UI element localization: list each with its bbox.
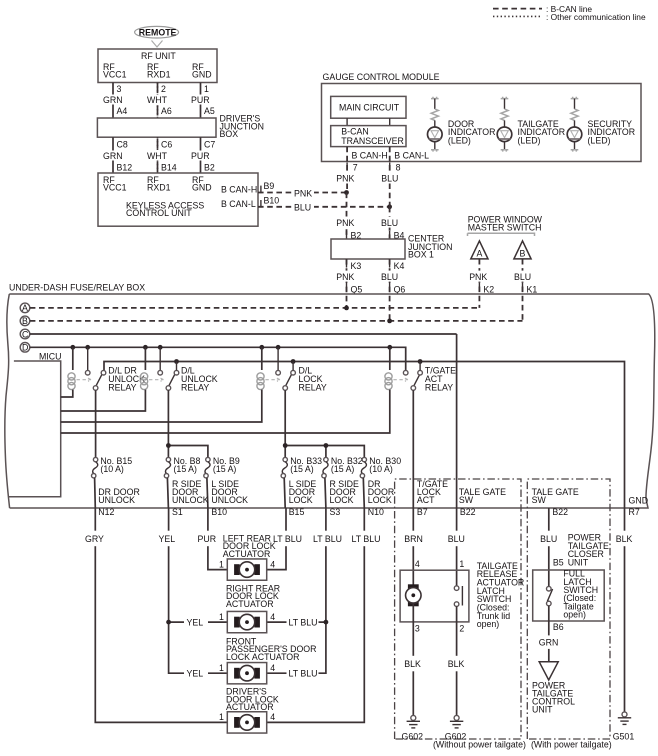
svg-text:B12: B12 xyxy=(117,163,133,173)
svg-text:RELAY: RELAY xyxy=(181,382,209,392)
svg-text:3: 3 xyxy=(117,84,122,94)
svg-text:BOX: BOX xyxy=(220,129,239,139)
legend other communication line xyxy=(493,12,646,22)
svg-text:REMOTE: REMOTE xyxy=(139,27,177,37)
svg-text:VCC1: VCC1 xyxy=(103,69,127,79)
junction node on BLU B-CAN xyxy=(387,204,392,209)
svg-text:B7: B7 xyxy=(417,507,428,517)
inline YEL label right rear actuator xyxy=(184,616,208,629)
power tailgate control unit label xyxy=(532,680,575,714)
relay K3 D/L lock relay xyxy=(61,347,327,422)
left rear door lock actuator M1 xyxy=(219,534,276,581)
svg-text:B10: B10 xyxy=(264,195,280,205)
svg-text:A5: A5 xyxy=(204,106,215,116)
svg-text:K4: K4 xyxy=(394,261,405,271)
svg-text:K1: K1 xyxy=(527,284,538,294)
wire BLU K1 from triangle B to line B xyxy=(512,259,537,321)
front passenger's door lock actuator M3 xyxy=(219,637,316,684)
caption DR DOOR LOCK xyxy=(368,479,394,505)
wire B-CAN L dashed BLU from keyless to node xyxy=(258,201,390,212)
wire BLU B22 to latch switch xyxy=(445,508,469,586)
svg-text:RXD1: RXD1 xyxy=(147,183,171,193)
caption L SIDE DOOR LOCK xyxy=(289,479,317,505)
junction node D at relay4 coil xyxy=(387,345,392,350)
inline LT BLU label front passenger actuator xyxy=(287,667,319,680)
wire main circuit to transceiver left xyxy=(346,118,348,125)
svg-text:PUR: PUR xyxy=(191,151,210,161)
svg-text:1: 1 xyxy=(219,663,224,673)
svg-text:B5: B5 xyxy=(553,558,564,568)
svg-text:BLU: BLU xyxy=(540,534,557,544)
relay K4 T/GATE act relay xyxy=(61,347,456,433)
svg-text:1: 1 xyxy=(219,559,224,569)
junction node fuse B32 feed xyxy=(324,443,329,448)
wire line A dashed to K2 xyxy=(30,307,480,309)
MICU box xyxy=(8,351,61,496)
svg-text:1: 1 xyxy=(219,712,224,722)
junction node D at relay3 coil xyxy=(259,345,264,350)
junction node D at relay2 contact xyxy=(158,345,163,350)
svg-text:S1: S1 xyxy=(172,507,183,517)
svg-text:D: D xyxy=(22,343,28,353)
svg-text:PNK: PNK xyxy=(294,188,312,198)
svg-text:B-CAN: B-CAN xyxy=(341,127,368,137)
svg-text:B14: B14 xyxy=(161,163,177,173)
svg-text:CONTROL UNIT: CONTROL UNIT xyxy=(126,208,192,218)
svg-text:(10 A): (10 A) xyxy=(369,464,393,474)
svg-text:4: 4 xyxy=(415,559,420,569)
svg-text:A4: A4 xyxy=(117,106,128,116)
svg-text:UNIT: UNIT xyxy=(532,705,553,715)
keyless access control unit box xyxy=(98,173,258,226)
wire LT BLU S3 column to actuators xyxy=(267,508,342,673)
wire LT BLU N10 column to driver's door lock actuator xyxy=(267,508,381,722)
node B xyxy=(20,316,30,326)
svg-text:4: 4 xyxy=(270,559,275,569)
junction node line A at Q5 xyxy=(344,306,349,311)
dashed box with power tailgate xyxy=(527,479,610,739)
tailgate indicator LED D2 xyxy=(497,97,565,152)
svg-text:PUR: PUR xyxy=(191,95,210,105)
ground G501 xyxy=(613,712,635,742)
svg-text:B CAN-H: B CAN-H xyxy=(221,185,257,195)
pin B9 keyless B CAN-H xyxy=(261,181,274,193)
wire YEL S1 column to actuators xyxy=(157,508,228,673)
svg-text:B CAN-L: B CAN-L xyxy=(221,199,256,209)
svg-text:YEL: YEL xyxy=(187,668,204,678)
svg-text:BOX 1: BOX 1 xyxy=(408,249,434,259)
wire BLK pin 2 to ground G602 xyxy=(446,606,469,716)
svg-text:YEL: YEL xyxy=(159,534,176,544)
center junction box 1 xyxy=(331,234,452,260)
node D xyxy=(20,343,30,353)
svg-text:C8: C8 xyxy=(117,140,128,150)
dashed box without power tailgate xyxy=(395,479,521,739)
svg-text:LT BLU: LT BLU xyxy=(289,668,318,678)
svg-text:BLK: BLK xyxy=(404,659,421,669)
svg-text:RXD1: RXD1 xyxy=(147,69,171,79)
svg-text:1: 1 xyxy=(204,84,209,94)
svg-text:: Other communication line: : Other communication line xyxy=(546,12,646,22)
svg-text:open): open) xyxy=(477,619,500,629)
wire PNK K2 from triangle A to line A xyxy=(468,259,494,308)
pin B10 keyless B CAN-L xyxy=(261,195,279,207)
svg-text:BLU: BLU xyxy=(294,203,311,213)
svg-text:K3: K3 xyxy=(351,261,362,271)
svg-text:PNK: PNK xyxy=(336,218,354,228)
svg-text:(15 A): (15 A) xyxy=(174,464,198,474)
tailgate switch column from line C xyxy=(456,334,458,508)
wire BLU B22 to full latch switch B5 xyxy=(537,508,563,586)
main circuit block xyxy=(331,96,406,118)
svg-text:GAUGE CONTROL MODULE: GAUGE CONTROL MODULE xyxy=(323,72,440,82)
power tailgate closer unit label xyxy=(568,533,609,568)
svg-text:BLU: BLU xyxy=(514,272,531,282)
wire WHT RF RXD1 pin 2 to A6 (dotted comm line) xyxy=(146,83,172,119)
caption TALE GATE SW without power tailgate xyxy=(459,487,506,505)
svg-text:MASTER SWITCH: MASTER SWITCH xyxy=(468,223,542,233)
ground G602 tailgate actuator xyxy=(402,715,424,741)
svg-text:C6: C6 xyxy=(161,140,172,150)
svg-text:2: 2 xyxy=(459,624,464,634)
fuse No.B32 15A xyxy=(322,456,363,508)
wire LT BLU B15 column from left rear actuator xyxy=(267,508,302,570)
gauge control module box xyxy=(322,72,642,162)
remote transmitter bubble xyxy=(135,26,179,38)
caption L SIDE DOOR UNLOCK xyxy=(211,479,248,505)
svg-text:(LED): (LED) xyxy=(448,136,471,146)
svg-text:PNK: PNK xyxy=(336,174,354,184)
junction node D at relay2 coil xyxy=(143,345,148,350)
under-dash fuse/relay box outline xyxy=(5,283,655,508)
svg-text:N12: N12 xyxy=(98,507,114,517)
svg-text:Q5: Q5 xyxy=(351,284,363,294)
right rear door lock actuator M2 xyxy=(219,583,280,632)
svg-text:N10: N10 xyxy=(368,507,384,517)
tailgate release actuator and latch switch box xyxy=(400,561,524,629)
svg-text:C: C xyxy=(22,329,29,339)
svg-text:BLU: BLU xyxy=(381,272,398,282)
svg-text:A: A xyxy=(477,248,483,258)
svg-text:B CAN-H: B CAN-H xyxy=(352,151,388,161)
junction node lever bus at relay3 xyxy=(291,359,296,364)
svg-text:LT BLU: LT BLU xyxy=(273,534,302,544)
svg-text:3: 3 xyxy=(415,624,420,634)
svg-text:2: 2 xyxy=(161,84,166,94)
svg-text:LT BLU: LT BLU xyxy=(352,534,381,544)
relay lever bus line to GND column xyxy=(104,362,625,509)
svg-text:UNLOCK: UNLOCK xyxy=(98,495,135,505)
wire line C solid to tailgate switch column xyxy=(30,333,457,335)
svg-text:B9: B9 xyxy=(264,181,275,191)
wire B CAN-L gauge pin 8 BLU dashed xyxy=(379,147,429,207)
svg-text:1: 1 xyxy=(459,559,464,569)
svg-text:C7: C7 xyxy=(204,140,215,150)
junction node lever bus at relay4 xyxy=(418,359,423,364)
svg-text:UNLOCK: UNLOCK xyxy=(211,495,248,505)
svg-text:S3: S3 xyxy=(330,507,341,517)
connector triangle B power window master switch xyxy=(514,241,531,259)
svg-text:(LED): (LED) xyxy=(518,136,541,146)
wire GRN B6 to power tailgate control unit xyxy=(537,606,564,662)
svg-text:YEL: YEL xyxy=(187,617,204,627)
svg-text:B2: B2 xyxy=(204,163,215,173)
svg-text:(LED): (LED) xyxy=(588,136,611,146)
fuse No.B15 10A xyxy=(92,456,133,508)
svg-text:BLK: BLK xyxy=(448,659,465,669)
svg-text:LT BLU: LT BLU xyxy=(313,534,342,544)
svg-text:PUR: PUR xyxy=(198,534,217,544)
node C xyxy=(20,329,30,339)
svg-text:A6: A6 xyxy=(161,106,172,116)
svg-text:GRN: GRN xyxy=(103,151,123,161)
svg-text:B6: B6 xyxy=(553,622,564,632)
svg-text:RELAY: RELAY xyxy=(425,382,453,392)
junction node line B at Q6 xyxy=(387,319,392,324)
junction node D at relay3 contact xyxy=(276,345,281,350)
wire relay2 output to fuses B8 B9 xyxy=(168,390,208,457)
svg-text:B CAN-L: B CAN-L xyxy=(394,151,429,161)
svg-text:GND: GND xyxy=(192,69,212,79)
wire main circuit to transceiver right xyxy=(389,118,391,125)
ground G602 latch switch xyxy=(445,715,467,741)
wire B-CAN H dashed PNK from keyless to node xyxy=(258,187,347,198)
junction node LT BLU at right rear actuator xyxy=(324,620,329,625)
full latch switch box xyxy=(533,569,605,621)
svg-text:ACTUATOR: ACTUATOR xyxy=(226,702,274,712)
svg-text:LT BLU: LT BLU xyxy=(289,617,318,627)
svg-text:8: 8 xyxy=(396,163,401,173)
svg-text:(15 A): (15 A) xyxy=(213,464,237,474)
connector triangle A power window master switch xyxy=(471,241,488,259)
inline LT BLU label right rear actuator xyxy=(287,616,319,629)
svg-text:open): open) xyxy=(563,610,586,620)
svg-text:B: B xyxy=(520,248,526,258)
wire line D solid feeding relay coils and contacts xyxy=(30,347,406,370)
wire relay1 output to fuse B15 xyxy=(95,390,97,457)
svg-text:B: B xyxy=(22,316,28,326)
svg-text:B22: B22 xyxy=(552,507,568,517)
wire BRN B7 to tailgate release actuator xyxy=(402,508,425,587)
svg-text:GRN: GRN xyxy=(539,638,559,648)
wire BLK R7 to ground G501 xyxy=(614,508,637,712)
svg-text:(Without power tailgate): (Without power tailgate) xyxy=(433,740,526,750)
svg-text:B10: B10 xyxy=(211,507,227,517)
wire GRN C8 to B12 xyxy=(102,137,132,173)
svg-text:GND: GND xyxy=(192,183,212,193)
svg-text:K2: K2 xyxy=(483,284,494,294)
svg-text:BLU: BLU xyxy=(448,534,465,544)
svg-text:BLU: BLU xyxy=(381,174,398,184)
svg-text:4: 4 xyxy=(270,663,275,673)
wire PUR B10 column to left rear actuator xyxy=(196,508,228,570)
svg-text:GRN: GRN xyxy=(103,95,123,105)
wire PNK K3 to Q5 into under-dash box xyxy=(336,259,363,308)
relay K2 D/L unlock relay xyxy=(61,347,218,411)
svg-text:ACTUATOR: ACTUATOR xyxy=(226,599,274,609)
svg-text:BLU: BLU xyxy=(381,218,398,228)
svg-text:(15 A): (15 A) xyxy=(331,464,355,474)
svg-text:7: 7 xyxy=(353,163,358,173)
svg-text:(With power tailgate): (With power tailgate) xyxy=(531,740,612,750)
svg-text:(10 A): (10 A) xyxy=(100,464,124,474)
caption T/GATE LOCK ACT xyxy=(417,479,448,505)
svg-text:UNLOCK: UNLOCK xyxy=(172,495,209,505)
svg-text:PNK: PNK xyxy=(469,272,487,282)
caption R SIDE DOOR LOCK xyxy=(330,479,359,505)
svg-text:LOCK: LOCK xyxy=(289,495,313,505)
svg-text:PNK: PNK xyxy=(336,272,354,282)
svg-text:RELAY: RELAY xyxy=(108,382,136,392)
caption R SIDE DOOR UNLOCK xyxy=(172,479,209,505)
junction node lever bus at relay2 xyxy=(174,359,179,364)
svg-text:WHT: WHT xyxy=(147,95,168,105)
RF unit U-RF box xyxy=(98,49,217,83)
svg-text:LOCK ACTUATOR: LOCK ACTUATOR xyxy=(226,652,300,662)
svg-text:Q6: Q6 xyxy=(394,284,406,294)
svg-text:A: A xyxy=(22,303,28,313)
svg-text:RF UNIT: RF UNIT xyxy=(141,51,176,61)
svg-text:BRN: BRN xyxy=(404,534,423,544)
fuse No.B33 15A xyxy=(281,456,322,508)
svg-text:1: 1 xyxy=(219,612,224,622)
svg-text:G602: G602 xyxy=(402,732,424,742)
svg-text:MICU: MICU xyxy=(39,351,61,361)
svg-text:RELAY: RELAY xyxy=(299,382,327,392)
dashed RF signal arrow xyxy=(152,41,163,48)
svg-text:UNIT: UNIT xyxy=(568,558,589,568)
fuse No.B8 15A xyxy=(164,456,200,508)
power window master switch label xyxy=(468,214,543,236)
svg-text:TRANSCEIVER: TRANSCEIVER xyxy=(341,136,404,146)
svg-text:4: 4 xyxy=(270,712,275,722)
svg-text:GRY: GRY xyxy=(85,534,104,544)
B-CAN transceiver block xyxy=(331,126,406,147)
wire GRY N12 column to driver's door lock actuator xyxy=(83,508,227,722)
door indicator LED D1 xyxy=(428,97,496,152)
svg-text:G501: G501 xyxy=(613,732,635,742)
svg-text:LOCK: LOCK xyxy=(368,495,392,505)
driver's junction box xyxy=(97,113,264,139)
wire WHT C6 to B14 (dotted) xyxy=(146,137,177,173)
svg-text:SW: SW xyxy=(532,495,547,505)
svg-text:4: 4 xyxy=(270,612,275,622)
svg-text:MAIN CIRCUIT: MAIN CIRCUIT xyxy=(339,103,400,113)
wire BLK pin 3 to ground G602 xyxy=(402,604,425,716)
svg-text:WHT: WHT xyxy=(147,151,168,161)
wire relay3 output to fuses B33 B32 B30 xyxy=(285,390,364,457)
node A xyxy=(20,303,30,313)
svg-text:BLK: BLK xyxy=(616,534,633,544)
junction node fuse B33 feed xyxy=(283,443,288,448)
relay K1 D/L DR unlock relay xyxy=(61,347,145,397)
inline YEL label front passenger actuator xyxy=(184,667,208,680)
wire line B dashed to K1 xyxy=(30,320,523,322)
svg-text:SW: SW xyxy=(459,495,474,505)
svg-text:R7: R7 xyxy=(629,507,640,517)
svg-text:VCC1: VCC1 xyxy=(103,183,127,193)
svg-text:ACT: ACT xyxy=(417,495,435,505)
svg-text:(15 A): (15 A) xyxy=(290,464,314,474)
svg-text:ACTUATOR: ACTUATOR xyxy=(223,549,271,559)
wire B CAN-H gauge pin 7 PNK dashed xyxy=(336,147,388,193)
wire PNK node to center junction box B2 xyxy=(336,193,362,241)
connector triangle to power tailgate control unit xyxy=(539,662,558,680)
driver's door lock actuator M4 xyxy=(219,687,279,733)
fuse No.B9 15A xyxy=(204,456,240,508)
wire PUR RF GND pin 1 to A5 xyxy=(190,83,215,119)
legend B-CAN line xyxy=(493,4,592,14)
caption DR DOOR UNLOCK xyxy=(98,487,140,505)
caption TALE GATE SW with power tailgate xyxy=(532,487,579,505)
junction node YEL at right rear actuator xyxy=(166,620,171,625)
svg-text:B22: B22 xyxy=(460,507,476,517)
wire BLU K4 to Q6 into under-dash box xyxy=(379,259,405,321)
svg-text:B15: B15 xyxy=(289,507,305,517)
security indicator LED D3 xyxy=(567,97,635,152)
wire relay4 output T/GATE lock act column xyxy=(412,390,414,508)
junction node fuse B8 feed xyxy=(166,443,171,448)
junction node D at relay1 coil xyxy=(70,345,75,350)
svg-text:UNDER-DASH FUSE/RELAY BOX: UNDER-DASH FUSE/RELAY BOX xyxy=(9,283,145,293)
svg-text:GND: GND xyxy=(629,495,649,505)
wire GRN RF VCC1 pin 3 to A4 xyxy=(102,83,127,119)
fuse No.B30 10A xyxy=(360,456,401,508)
wire BLU node to center junction box B4 xyxy=(379,207,404,241)
junction node on PNK B-CAN xyxy=(344,190,349,195)
svg-text:LOCK: LOCK xyxy=(330,495,354,505)
wire PUR C7 to B2 xyxy=(190,137,215,173)
junction node D at relay1 contact xyxy=(85,345,90,350)
